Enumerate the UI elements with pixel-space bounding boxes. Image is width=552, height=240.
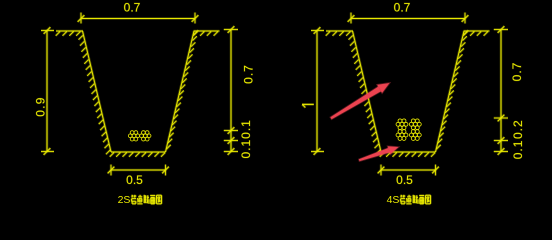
4S drawing bottom dim ext right	[434, 165, 437, 176]
4S drawing right dim tick 2	[498, 137, 505, 144]
svg-text:2S: 2S	[118, 194, 131, 206]
4S drawing left slope hatch	[349, 35, 381, 154]
2S drawing bottom hatch	[110, 153, 166, 157]
4S drawing right dim tick 1	[498, 115, 505, 122]
4S drawing ground surface right	[464, 30, 490, 33]
2S drawing right dim tick 1	[228, 127, 235, 134]
2S drawing left dim tick bottom	[44, 148, 51, 155]
4S drawing caption 4S管道断面图	[387, 194, 431, 206]
2S drawing right dim text 0.7	[241, 64, 255, 84]
2S drawing right dim ext 2	[224, 139, 238, 142]
2S drawing ground hatch left	[56, 32, 81, 36]
4S drawing left dim text 1 (rotated)	[302, 104, 314, 107]
4S drawing ground surface left	[326, 30, 353, 33]
4S drawing left dim tick top	[314, 27, 321, 34]
4S drawing right dim tick 0	[498, 26, 505, 33]
4S drawing cable bundles	[396, 119, 421, 141]
4S drawing top dim text 0.7	[394, 0, 411, 14]
4S drawing top dim ext left	[350, 13, 353, 24]
4S drawing left dim ext top	[311, 29, 324, 32]
2S drawing top dim tick right	[192, 15, 199, 22]
2S drawing left slope hatch	[79, 35, 111, 154]
red arrow upper (pointing at slope)	[330, 83, 389, 119]
2S drawing bottom dim ext right	[164, 165, 167, 176]
4S drawing right slope hatch	[436, 30, 468, 149]
4S drawing right dimension line	[500, 30, 503, 152]
2S drawing right dim text 0.1	[239, 119, 253, 139]
4S drawing top dim ext right	[464, 13, 467, 24]
4S drawing right dim ext 0	[494, 28, 508, 31]
4S drawing left dimension line	[316, 31, 319, 152]
4S drawing top dimension line 0.7	[351, 17, 465, 20]
2S drawing bottom dim ext left	[110, 165, 113, 176]
svg-text:0.7: 0.7	[124, 0, 141, 14]
2S drawing right dim tick 3	[228, 148, 235, 155]
4S drawing top dim tick left	[348, 15, 355, 22]
svg-text:4S: 4S	[387, 194, 400, 206]
2S drawing left dim tick top	[44, 27, 51, 34]
4S drawing ground hatch left	[326, 32, 351, 36]
svg-text:0.7: 0.7	[241, 64, 255, 84]
2S drawing right dim tick 2	[228, 137, 235, 144]
4S drawing right dim ext 3	[494, 150, 508, 153]
2S drawing left slope wall	[83, 31, 112, 152]
4S drawing left dim tick bottom	[314, 148, 321, 155]
2S drawing ground surface right	[194, 30, 220, 33]
2S drawing right dimension line	[230, 30, 233, 152]
2S drawing left dim ext bottom	[41, 150, 54, 153]
2S drawing right dim tick 0	[228, 26, 235, 33]
4S drawing right dim ext 1	[494, 117, 508, 120]
2S drawing right dim ext 1	[224, 129, 238, 132]
4S drawing right dim tick 3	[498, 148, 505, 155]
2S drawing left dim text 0.9	[33, 96, 47, 117]
4S drawing bottom hatch	[380, 153, 436, 157]
svg-text:0.5: 0.5	[126, 173, 143, 187]
svg-text:0.1: 0.1	[239, 139, 253, 159]
2S drawing bottom dimension line 0.5	[111, 169, 166, 172]
4S drawing left slope wall	[353, 31, 382, 152]
4S drawing trench bottom	[381, 151, 436, 154]
4S drawing right slope wall	[436, 31, 465, 152]
2S drawing left dimension line	[46, 31, 49, 152]
4S drawing right dim text 0.1	[511, 140, 525, 160]
2S drawing top dimension line 0.7	[81, 17, 195, 20]
4S drawing bottom dim text 0.5	[396, 173, 413, 187]
red arrow lower (pointing at bedding)	[359, 146, 399, 161]
svg-text:0.7: 0.7	[394, 0, 411, 14]
2S drawing trench bottom	[111, 151, 166, 154]
2S drawing top dim ext left	[80, 13, 83, 24]
2S drawing right dim text 0.1	[239, 139, 253, 159]
svg-text:0.2: 0.2	[511, 119, 525, 139]
2S drawing bottom dim tick right	[162, 167, 169, 174]
2S drawing ground hatch right	[193, 32, 218, 36]
4S drawing right dim ext 2	[494, 139, 508, 142]
2S drawing right slope wall	[166, 31, 195, 152]
2S drawing cable bundles	[128, 131, 151, 141]
4S drawing bottom dim ext left	[380, 165, 383, 176]
2S drawing bottom dim text 0.5	[126, 173, 143, 187]
4S drawing bottom dim tick left	[378, 167, 385, 174]
2S drawing top dim ext right	[194, 13, 197, 24]
2S drawing bottom dim tick left	[108, 167, 115, 174]
2S drawing ground surface left	[56, 30, 83, 33]
2S drawing top dim text 0.7	[124, 0, 141, 14]
svg-text:0.1: 0.1	[239, 119, 253, 139]
4S drawing bottom dim tick right	[432, 167, 439, 174]
4S drawing left dim ext bottom	[311, 150, 324, 153]
2S drawing right dim ext 0	[224, 28, 238, 31]
2S drawing right dim ext 3	[224, 150, 238, 153]
4S drawing top dim tick right	[462, 15, 469, 22]
2S drawing left dim ext top	[41, 29, 54, 32]
4S drawing ground hatch right	[463, 32, 488, 36]
4S drawing bottom dimension line 0.5	[381, 169, 436, 172]
svg-text:0.5: 0.5	[396, 173, 413, 187]
svg-text:0.1: 0.1	[511, 140, 525, 160]
2S drawing right slope hatch	[166, 30, 198, 149]
svg-text:0.7: 0.7	[510, 62, 524, 82]
4S drawing right dim text 0.7	[510, 62, 524, 82]
2S drawing caption 2S管道断面图	[118, 194, 162, 206]
2S drawing top dim tick left	[78, 15, 85, 22]
svg-text:0.9: 0.9	[33, 96, 47, 117]
4S drawing right dim text 0.2	[511, 119, 525, 139]
